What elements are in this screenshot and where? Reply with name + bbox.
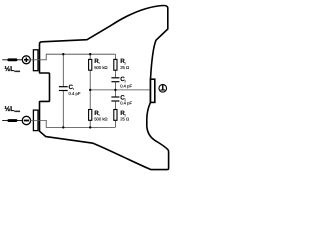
svg-text:500 kΩ: 500 kΩ — [94, 117, 107, 122]
junction dot: C1 / top rail — [62, 53, 64, 55]
wire step + bottom rail — [46, 120, 115, 127]
resistor R2 bottom — [114, 110, 117, 121]
ground plate (right) — [151, 79, 155, 102]
R2/C2 bottom branch — [114, 90, 116, 97]
svg-text:0.4 pF: 0.4 pF — [120, 84, 132, 89]
wire step + top rail — [46, 54, 115, 60]
wire: top lead — [2, 59, 22, 61]
junction dot: R1 / top rail — [89, 53, 91, 55]
capacitor C2 top plates — [111, 77, 119, 79]
svg-text:25 Ω: 25 Ω — [120, 65, 129, 70]
source circle + (top) — [22, 56, 30, 64]
svg-text:25 Ω: 25 Ω — [120, 117, 129, 122]
R1 bottom branch — [89, 90, 91, 128]
middle rail — [90, 89, 150, 91]
wire from - circle through tab — [30, 119, 46, 121]
capacitor C2 bottom plates — [111, 96, 119, 98]
wire: bottom lead — [2, 119, 22, 121]
resistor R2 top — [114, 59, 117, 70]
junction dot: R1 / middle rail — [89, 89, 91, 91]
connector tab top — [33, 50, 38, 71]
resistor R1 bottom — [89, 110, 92, 121]
inductor 1/2 L top (solid) — [7, 58, 17, 61]
svg-text:0.4 pF: 0.4 pF — [69, 91, 81, 96]
body outline (probe housing) — [40, 5, 169, 169]
svg-text:0.4 pF: 0.4 pF — [120, 101, 132, 106]
resistor R1 top — [89, 59, 92, 70]
svg-text:500 kΩ: 500 kΩ — [94, 65, 107, 70]
connector tab bottom — [33, 110, 38, 131]
source circle - (bottom) — [22, 116, 30, 124]
inductor 1/2 L bottom (solid) — [7, 119, 17, 122]
junction dot: R1 / bottom rail — [89, 126, 91, 128]
junction dot: C2 / middle rail — [114, 89, 116, 91]
wire from + circle through tab — [30, 59, 46, 61]
R1 top branch — [89, 54, 91, 90]
R2/C2 top branch wire — [114, 54, 116, 78]
C1 branch wire — [62, 54, 64, 86]
junction dot: C1 / bottom rail — [62, 126, 64, 128]
ground symbol circle — [159, 85, 167, 93]
capacitor C1 plates — [59, 86, 68, 88]
